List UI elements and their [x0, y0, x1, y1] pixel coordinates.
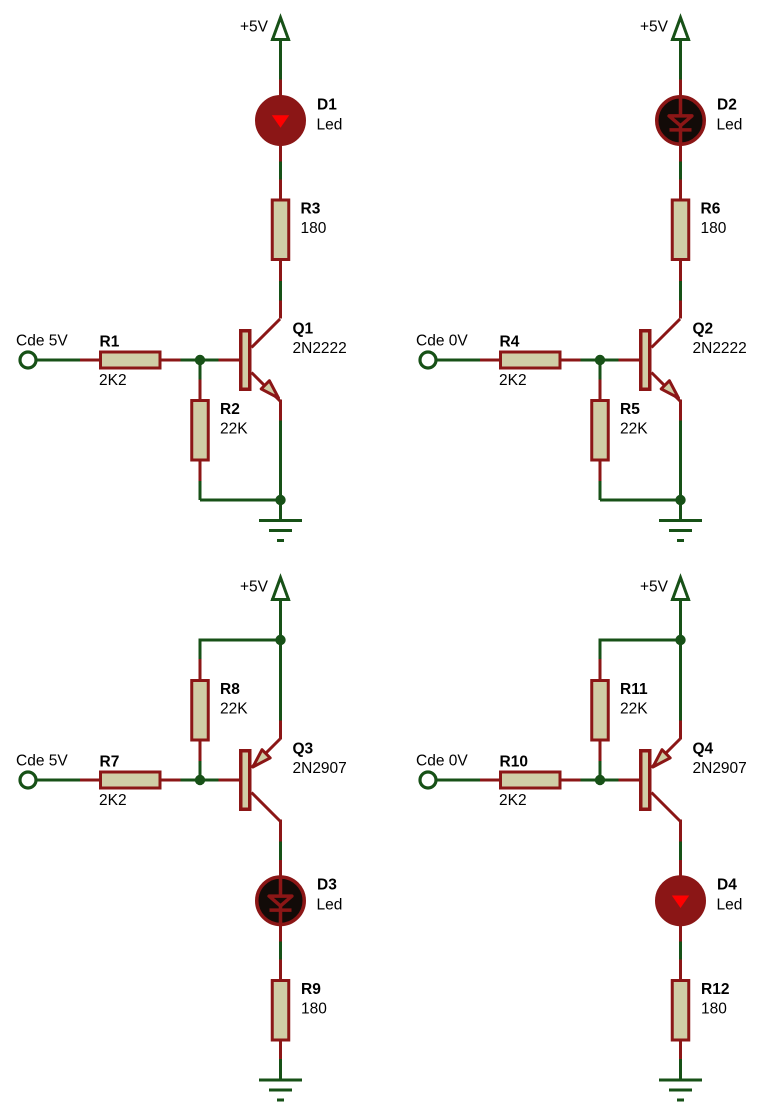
- wire +5V down: [679, 600, 682, 640]
- svg-text:R12: R12: [701, 981, 729, 998]
- svg-text:2K2: 2K2: [499, 372, 527, 389]
- wire LED to R: [279, 162, 282, 180]
- label Q3 value 2N2907: [293, 760, 347, 777]
- label R12 value 180: [701, 1001, 727, 1018]
- label R10 value 2K2: [499, 792, 527, 809]
- wire terminal to R: [37, 359, 81, 362]
- wire R to base node: [581, 779, 619, 782]
- pin R6 top: [679, 180, 682, 201]
- wire LED to R: [279, 942, 282, 960]
- wire +5V to LED: [279, 40, 282, 80]
- pin R11 bottom: [599, 742, 602, 762]
- svg-text:R7: R7: [100, 754, 120, 771]
- pin R7 right: [162, 779, 181, 782]
- wire base node down: [199, 360, 202, 380]
- wire along ground: [600, 499, 681, 502]
- transistor Q3 collector: [252, 793, 281, 822]
- wire R to collector: [279, 281, 282, 301]
- svg-text:R5: R5: [620, 401, 640, 418]
- ground: [659, 1080, 702, 1100]
- wire emitter to ground: [279, 421, 282, 501]
- transistor Q1 emitter arrow: [252, 373, 281, 402]
- svg-text:2N2907: 2N2907: [293, 760, 347, 777]
- svg-text:180: 180: [701, 1001, 727, 1018]
- label R4: [500, 334, 520, 351]
- svg-text:22K: 22K: [220, 701, 248, 718]
- label R1 value 2K2: [99, 372, 127, 389]
- pin Q3 collector down: [279, 820, 282, 842]
- ground: [659, 521, 702, 541]
- wire emitter from +5V: [279, 640, 282, 721]
- svg-text:D3: D3: [317, 877, 337, 894]
- wire R to ground rail: [599, 481, 602, 500]
- transistor Q3 emitter arrow: [252, 739, 281, 768]
- pin R2 top: [199, 380, 202, 401]
- label +5V: [240, 19, 269, 36]
- label Cde 0V: [416, 753, 468, 770]
- label +5V: [640, 579, 669, 596]
- pin Q1 base: [219, 359, 240, 362]
- wire to ground symbol: [279, 500, 282, 519]
- svg-text:Q1: Q1: [293, 321, 314, 338]
- LED D3 (off): [257, 877, 305, 925]
- svg-text:Q4: Q4: [693, 741, 714, 758]
- label D2 value Led: [717, 117, 743, 134]
- label D3: [317, 877, 337, 894]
- label R6 value 180: [701, 220, 727, 237]
- wire to ground symbol: [679, 1059, 682, 1079]
- junction emitter/ground: [275, 495, 285, 505]
- junction emitter/ground: [675, 495, 685, 505]
- ground: [259, 521, 302, 541]
- svg-text:Led: Led: [717, 897, 743, 914]
- svg-text:2N2907: 2N2907: [693, 760, 747, 777]
- terminal Cde 0V: [420, 772, 436, 788]
- junction +5V node: [675, 635, 685, 645]
- pin R9 top: [279, 960, 282, 981]
- label Cde 5V: [16, 333, 68, 350]
- pin R12 bottom: [679, 1042, 682, 1060]
- wire base node down: [599, 360, 602, 380]
- wire R to base node: [199, 761, 202, 780]
- pin R12 top: [679, 960, 682, 981]
- label D3 value Led: [317, 897, 343, 914]
- wire to bias resistor: [199, 639, 281, 660]
- label D4 value Led: [717, 897, 743, 914]
- label R12: [701, 981, 729, 998]
- pin R4 left: [480, 359, 500, 362]
- pin Q3 base: [219, 779, 240, 782]
- pin R7 left: [80, 779, 100, 782]
- power +5V symbol: [271, 18, 290, 40]
- label Q2: [693, 321, 714, 338]
- pin LED D1 anode: [279, 80, 282, 97]
- svg-text:Cde 5V: Cde 5V: [16, 333, 68, 350]
- label R3 value 180: [301, 220, 327, 237]
- wire R to collector: [679, 281, 682, 301]
- svg-text:+5V: +5V: [640, 579, 669, 596]
- wire +5V to LED: [679, 40, 682, 80]
- pin Q4 base: [619, 779, 640, 782]
- svg-text:180: 180: [301, 1001, 327, 1018]
- wire along ground: [200, 499, 281, 502]
- LED D4 (lit): [657, 877, 705, 925]
- terminal Cde 5V: [20, 772, 36, 788]
- resistor R5: [592, 401, 609, 461]
- pin Q4 emitter: [679, 721, 682, 740]
- power +5V symbol: [671, 578, 690, 600]
- resistor R12: [672, 981, 689, 1041]
- svg-text:R6: R6: [701, 201, 721, 218]
- label R7: [100, 754, 120, 771]
- pin R6 bottom: [679, 261, 682, 281]
- label R4 value 2K2: [499, 372, 527, 389]
- pin Q2 collector: [679, 301, 682, 319]
- label D1: [317, 97, 337, 114]
- svg-text:+5V: +5V: [640, 19, 669, 36]
- junction base node: [195, 775, 205, 785]
- wire terminal to R: [37, 779, 81, 782]
- svg-text:+5V: +5V: [240, 579, 269, 596]
- LED D1 (lit): [257, 97, 305, 145]
- svg-text:R2: R2: [220, 401, 240, 418]
- label R11 value 22K: [620, 701, 648, 718]
- svg-text:D1: D1: [317, 97, 337, 114]
- transistor Q3 body: [241, 751, 250, 810]
- resistor R3: [272, 200, 289, 260]
- pin LED D1 cathode: [279, 145, 282, 162]
- wire to bias resistor: [599, 639, 681, 660]
- svg-text:R8: R8: [220, 681, 240, 698]
- svg-text:2K2: 2K2: [99, 372, 127, 389]
- transistor Q2 emitter arrow: [652, 373, 681, 402]
- label R2 value 22K: [220, 421, 248, 438]
- svg-text:Cde 0V: Cde 0V: [416, 753, 468, 770]
- pin Q1 emitter: [279, 400, 282, 421]
- svg-text:180: 180: [301, 220, 327, 237]
- junction base node: [595, 775, 605, 785]
- label R8 value 22K: [220, 701, 248, 718]
- svg-text:22K: 22K: [620, 421, 648, 438]
- pin R10 right: [562, 779, 581, 782]
- label Q1 value 2N2222: [293, 340, 347, 357]
- wire R to base node: [181, 359, 219, 362]
- svg-text:R11: R11: [620, 681, 648, 698]
- wire emitter from +5V: [679, 640, 682, 721]
- svg-text:2K2: 2K2: [99, 792, 127, 809]
- wire R to base node: [581, 359, 619, 362]
- label R11: [620, 681, 648, 698]
- svg-text:R9: R9: [301, 981, 321, 998]
- label Q2 value 2N2222: [693, 340, 747, 357]
- pin LED D2 cathode: [679, 145, 682, 162]
- svg-text:22K: 22K: [620, 701, 648, 718]
- svg-text:Cde 0V: Cde 0V: [416, 333, 468, 350]
- svg-text:D4: D4: [717, 877, 737, 894]
- label R5 value 22K: [620, 421, 648, 438]
- wire collector to LED: [679, 842, 682, 861]
- pin R5 bottom: [599, 462, 602, 482]
- resistor R10: [501, 772, 561, 788]
- pin R11 top: [599, 659, 602, 680]
- resistor R1: [101, 352, 161, 368]
- resistor R8: [192, 681, 209, 741]
- resistor R9: [272, 981, 289, 1041]
- pin LED D3 cathode: [279, 925, 282, 942]
- wire terminal to R: [437, 779, 481, 782]
- svg-text:+5V: +5V: [240, 19, 269, 36]
- label Q4: [693, 741, 714, 758]
- svg-text:Cde 5V: Cde 5V: [16, 753, 68, 770]
- resistor R11: [592, 681, 609, 741]
- pin R10 left: [480, 779, 500, 782]
- label R6: [701, 201, 721, 218]
- svg-text:180: 180: [701, 220, 727, 237]
- svg-text:R4: R4: [500, 334, 520, 351]
- pin R3 top: [279, 180, 282, 201]
- pin LED D4 anode: [679, 860, 682, 877]
- transistor Q2 collector: [652, 319, 681, 348]
- label Cde 5V: [16, 753, 68, 770]
- wire collector to LED: [279, 842, 282, 861]
- pin LED D3 anode: [279, 860, 282, 877]
- svg-text:Led: Led: [717, 117, 743, 134]
- pin R1 right: [162, 359, 181, 362]
- pin R9 bottom: [279, 1042, 282, 1060]
- pin R1 left: [80, 359, 100, 362]
- label R10: [500, 754, 528, 771]
- svg-text:2K2: 2K2: [499, 792, 527, 809]
- wire R to ground rail: [199, 481, 202, 500]
- transistor Q1 collector: [252, 319, 281, 348]
- terminal Cde 5V: [20, 352, 36, 368]
- pin R5 top: [599, 380, 602, 401]
- label Q3: [293, 741, 314, 758]
- label R5: [620, 401, 640, 418]
- pin Q2 emitter: [679, 400, 682, 421]
- wire +5V down: [279, 600, 282, 640]
- label R8: [220, 681, 240, 698]
- power +5V symbol: [271, 578, 290, 600]
- pin R3 bottom: [279, 261, 282, 281]
- ground: [259, 1080, 302, 1100]
- label Q1: [293, 321, 314, 338]
- wire terminal to R: [437, 359, 481, 362]
- svg-text:D2: D2: [717, 97, 737, 114]
- pin Q3 emitter: [279, 721, 282, 740]
- wire R to base node: [599, 761, 602, 780]
- wire to ground symbol: [679, 500, 682, 519]
- pin Q4 collector down: [679, 820, 682, 842]
- svg-text:R1: R1: [100, 334, 120, 351]
- svg-text:Led: Led: [317, 897, 343, 914]
- transistor Q4 emitter arrow: [652, 739, 681, 768]
- svg-text:2N2222: 2N2222: [693, 340, 747, 357]
- svg-text:R10: R10: [500, 754, 528, 771]
- junction base node: [595, 355, 605, 365]
- svg-text:Led: Led: [317, 117, 343, 134]
- label R1: [100, 334, 120, 351]
- wire R to base node: [181, 779, 219, 782]
- label D4: [717, 877, 737, 894]
- wire emitter to ground: [679, 421, 682, 501]
- pin R8 bottom: [199, 742, 202, 762]
- label D1 value Led: [317, 117, 343, 134]
- transistor Q4 collector: [652, 793, 681, 822]
- pin R8 top: [199, 659, 202, 680]
- terminal Cde 0V: [420, 352, 436, 368]
- transistor Q2 body: [641, 331, 650, 390]
- resistor R4: [501, 352, 561, 368]
- label +5V: [640, 19, 669, 36]
- pin LED D2 anode: [679, 80, 682, 97]
- pin R4 right: [562, 359, 581, 362]
- pin R2 bottom: [199, 462, 202, 482]
- resistor R6: [672, 200, 689, 260]
- transistor Q4 body: [641, 751, 650, 810]
- label R9: [301, 981, 321, 998]
- wire to ground symbol: [279, 1059, 282, 1079]
- wire LED to R: [679, 162, 682, 180]
- svg-text:Q3: Q3: [293, 741, 314, 758]
- label R2: [220, 401, 240, 418]
- label R7 value 2K2: [99, 792, 127, 809]
- svg-text:R3: R3: [301, 201, 321, 218]
- wire LED to R: [679, 942, 682, 960]
- pin LED D4 cathode: [679, 925, 682, 942]
- svg-text:Q2: Q2: [693, 321, 714, 338]
- label D2: [717, 97, 737, 114]
- junction base node: [195, 355, 205, 365]
- pin Q1 collector: [279, 301, 282, 319]
- power +5V symbol: [671, 18, 690, 40]
- pin Q2 base: [619, 359, 640, 362]
- transistor Q1 body: [241, 331, 250, 390]
- label +5V: [240, 579, 269, 596]
- resistor R2: [192, 401, 209, 461]
- resistor R7: [101, 772, 161, 788]
- svg-text:22K: 22K: [220, 421, 248, 438]
- label Cde 0V: [416, 333, 468, 350]
- junction +5V node: [275, 635, 285, 645]
- label R9 value 180: [301, 1001, 327, 1018]
- svg-text:2N2222: 2N2222: [293, 340, 347, 357]
- label R3: [301, 201, 321, 218]
- LED D2 (off): [657, 97, 705, 145]
- label Q4 value 2N2907: [693, 760, 747, 777]
